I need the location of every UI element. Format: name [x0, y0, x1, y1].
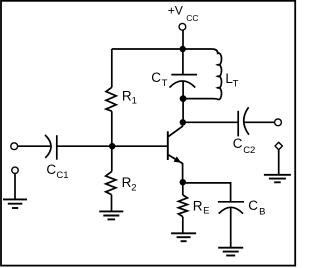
svg-text:CC: CC — [186, 13, 198, 23]
svg-text:R: R — [122, 89, 132, 104]
svg-text:C: C — [233, 136, 243, 151]
svg-text:B: B — [259, 206, 265, 217]
svg-text:E: E — [203, 206, 209, 217]
svg-text:C: C — [46, 162, 56, 177]
svg-text:C1: C1 — [56, 170, 68, 181]
svg-text:R: R — [122, 175, 132, 190]
svg-text:+V: +V — [168, 4, 184, 18]
svg-text:C: C — [151, 70, 161, 85]
svg-text:1: 1 — [132, 96, 137, 107]
svg-text:T: T — [162, 78, 168, 89]
svg-text:C: C — [248, 198, 258, 213]
svg-text:2: 2 — [131, 182, 136, 193]
svg-text:R: R — [193, 199, 203, 214]
svg-text:T: T — [233, 79, 239, 90]
svg-text:C2: C2 — [243, 145, 255, 156]
